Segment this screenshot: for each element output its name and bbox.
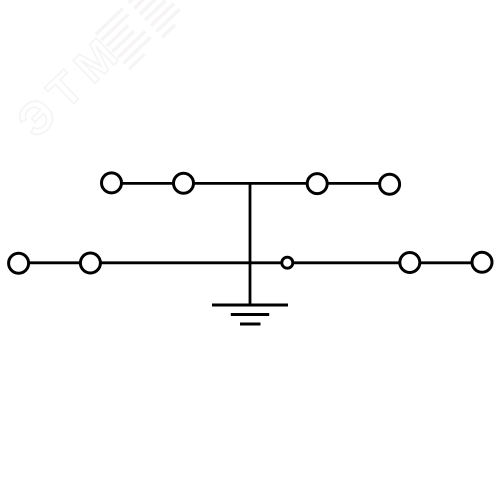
node: test tap (small circle) (282, 257, 293, 268)
terminal 1.1 (102, 173, 122, 193)
terminal 2.2 (80, 253, 100, 273)
terminal 2.4 (472, 252, 492, 272)
watermark ЭТМ text, rotated (7, 22, 134, 147)
terminal 1.4 (380, 174, 400, 194)
ground (212, 305, 288, 324)
wire: upper bus (level 1) (111, 182, 390, 185)
terminal 2.3 (400, 253, 420, 273)
terminal 1.3 (307, 174, 327, 194)
terminal 1.2 (174, 173, 194, 193)
watermark ЭТМ logo (striped emblem), rotated (96, 0, 185, 69)
wire: vertical link to ground (249, 183, 252, 305)
terminal 2.1 (9, 253, 29, 273)
wire: lower bus (level 2) (18, 261, 482, 264)
